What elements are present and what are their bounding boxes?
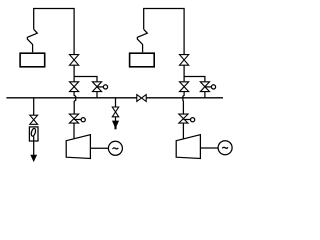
valve V8: [180, 55, 189, 66]
wire V4 to compressor: [73, 123, 75, 139]
wire V1 to branch: [73, 65, 75, 81]
wire V9 to header: [204, 92, 206, 98]
wire V9 actuator stub: [205, 86, 211, 88]
motor M1 tilde: [113, 148, 119, 149]
valve V11: [179, 114, 188, 123]
wire header to drain valve: [115, 98, 117, 107]
wire compressor K2 to motor: [200, 147, 218, 149]
wire drain valve to arrow: [115, 117, 117, 123]
wire V3 to header with line jump: [74, 92, 76, 114]
vessel B1: [20, 53, 45, 67]
header pipe right segment: [146, 97, 223, 99]
wire squiggle flexible connection unit 2: [137, 29, 147, 52]
wire V11 to compressor: [182, 123, 184, 139]
flow meter FI1 float: [30, 128, 36, 137]
wire V8 to branch: [183, 65, 185, 81]
wire compressor K1 to motor: [90, 147, 108, 149]
valve V6: [30, 115, 38, 124]
outlet flow arrow: [31, 155, 36, 160]
wire squiggle flexible connection unit 1: [27, 29, 37, 52]
header pipe left segment: [6, 97, 136, 99]
actuator circle of V2: [103, 85, 107, 89]
compressor K2: [176, 135, 200, 159]
valve V9: [200, 82, 209, 92]
wire top pipe unit 2: [144, 9, 184, 55]
actuator circle of V9: [211, 85, 215, 89]
vessel B2: [130, 53, 155, 67]
motor M2 circle: [218, 141, 232, 155]
motor M1 circle: [108, 141, 122, 155]
valve V10: [180, 82, 189, 92]
wire V2 actuator stub: [97, 86, 103, 88]
valve V7 drain: [112, 107, 118, 117]
flow meter FI1 body: [29, 127, 38, 141]
motor M2 tilde: [222, 147, 228, 148]
actuator circle of V11: [191, 118, 195, 122]
wire branch to V2: [74, 77, 97, 82]
valve V4: [69, 114, 78, 123]
wire V2 to header: [96, 92, 98, 98]
wire top pipe unit 1: [34, 9, 74, 55]
valve V2: [92, 82, 101, 92]
drain flow arrow: [113, 121, 118, 127]
wire V11 actuator stub: [183, 119, 190, 121]
flow meter FI1 stem: [33, 136, 35, 141]
compressor K1: [66, 135, 90, 159]
valve V5 horizontal on header: [137, 95, 146, 102]
wire V4 actuator stub: [74, 119, 81, 121]
wire flow meter to outlet: [33, 141, 35, 158]
wire V10 to header with line jump: [183, 92, 184, 114]
wire header to flow meter branch: [33, 98, 35, 115]
valve V3: [70, 82, 79, 92]
drain outlet stub: [114, 126, 116, 129]
valve V1: [70, 55, 79, 66]
actuator circle of V4: [81, 118, 85, 122]
wire branch to V9: [184, 77, 205, 82]
